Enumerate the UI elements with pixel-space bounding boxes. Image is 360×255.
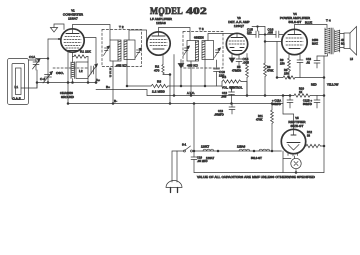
svg-text:33: 33: [307, 134, 311, 138]
tube V3 plate: [231, 37, 243, 39]
svg-text:MODEL: MODEL: [150, 6, 183, 16]
IF transformer T2 dashed shield: [102, 30, 142, 67]
svg-text:50MFD: 50MFD: [303, 102, 312, 106]
svg-text:GROUND: GROUND: [61, 95, 74, 99]
svg-text:C12: C12: [222, 91, 228, 95]
T3 primary winding: [187, 41, 199, 62]
tube V3 envelope: [226, 33, 247, 54]
wire V1 grid lead: [48, 38, 61, 40]
wire pilot left: [283, 158, 291, 160]
svg-text:.005: .005: [221, 95, 227, 99]
oscillator coil L2 box: [76, 62, 88, 79]
svg-text:.005: .005: [268, 31, 274, 35]
svg-text:S-1: S-1: [182, 143, 187, 147]
svg-text:.005: .005: [243, 61, 250, 65]
wire T2 secondary bottom to AVC: [126, 60, 128, 87]
capacitor C13 line filter: [231, 104, 233, 108]
svg-text:C.A.5: C.A.5: [13, 97, 21, 101]
svg-text:.02: .02: [306, 61, 310, 65]
tube V3 grid: [229, 40, 245, 42]
svg-text:R8: R8: [284, 68, 288, 72]
svg-text:12SQ7: 12SQ7: [234, 24, 244, 28]
wire T3 secondary top to V3: [208, 34, 237, 41]
capacitor C12: [229, 91, 235, 93]
svg-text:YELLOW: YELLOW: [327, 83, 339, 87]
wire heater feed vertical: [193, 104, 195, 152]
wire V4 screen pin: [299, 54, 301, 61]
T3 trimmer right: [216, 49, 220, 51]
wire to coupling cap: [264, 27, 266, 64]
T2 primary winding: [110, 40, 121, 61]
svg-text:470K: 470K: [267, 69, 274, 73]
tube V5 pin stubs: [287, 153, 289, 156]
svg-text:R12: R12: [307, 130, 313, 134]
tube V1 cathode: [66, 47, 79, 49]
tube V3 diode plates: [230, 47, 234, 49]
svg-text:470K: 470K: [256, 118, 263, 122]
capacitor C19: [193, 151, 195, 157]
tube V4 cathode: [289, 48, 300, 50]
tube V1 envelope: [61, 29, 84, 52]
svg-text:455 KC: 455 KC: [187, 64, 199, 68]
wire T3 primary bottom to B+: [190, 61, 192, 96]
AVC bus: [127, 85, 151, 87]
tube V2 cathode: [153, 48, 164, 50]
wire antenna bottom lead: [21, 70, 37, 88]
svg-text:B-: B-: [114, 99, 117, 103]
svg-text:C-2: C-2: [40, 77, 45, 81]
ground symbol mid: [180, 60, 182, 64]
T2 trimmer left: [105, 47, 109, 49]
tube V4 plate: [288, 34, 301, 36]
tube V3 cathode: [232, 50, 242, 52]
wire R2 bottom: [163, 74, 170, 104]
capacitor C17 cathode bypass: [297, 59, 303, 61]
right rail: [323, 56, 325, 173]
trimmer capacitor C2B osc: [90, 66, 92, 74]
wire T2 secondary top to V2 grid: [129, 30, 147, 43]
tube V5 plate: [291, 134, 296, 136]
wire T2 primary bottom RED lead: [112, 61, 114, 104]
svg-text:R9: R9: [280, 58, 284, 62]
svg-text:30MFD: 30MFD: [272, 102, 281, 106]
svg-text:455 KC: 455 KC: [116, 64, 128, 68]
svg-text:L1: L1: [15, 85, 19, 89]
capacitor C10: [216, 60, 218, 69]
svg-text:.05 MFD: .05 MFD: [197, 159, 208, 163]
svg-text:GREEN: GREEN: [194, 36, 204, 40]
junction dot: [47, 82, 49, 84]
svg-text:12SA7: 12SA7: [68, 17, 78, 21]
tube V1 plate: [66, 33, 79, 35]
junction dot: [36, 82, 38, 84]
svg-text:2.2 MEG: 2.2 MEG: [152, 90, 165, 94]
wire pot right: [241, 82, 247, 96]
wire ground drop: [67, 83, 69, 104]
loop antenna L1 inner winding: [16, 68, 22, 95]
svg-text:MAX: MAX: [312, 42, 318, 46]
capacitor C18 plate bypass: [316, 56, 318, 61]
svg-text:C11B +: C11B +: [303, 99, 313, 103]
wire pot left: [221, 82, 223, 87]
wire V2 cathode pin: [162, 55, 164, 65]
svg-text:470: 470: [154, 69, 160, 73]
wire V3 plate line: [248, 34, 257, 36]
wire V2 screen drop: [173, 55, 175, 96]
tube V5 cathode: [287, 142, 300, 144]
oscillator coil L2 hatch: [70, 62, 72, 79]
svg-text:+ C11A: + C11A: [272, 99, 281, 103]
svg-text:C13: C13: [218, 109, 224, 113]
wire pilot top: [294, 156, 296, 159]
svg-text:12BA6: 12BA6: [237, 145, 246, 149]
svg-text:R3: R3: [157, 80, 161, 84]
wire antenna section down: [36, 83, 38, 89]
svg-text:150: 150: [284, 72, 289, 76]
wire V5 top: [293, 114, 295, 129]
svg-text:50L6-GT: 50L6-GT: [289, 20, 302, 24]
tube V5 filament: [288, 145, 299, 151]
svg-text:A.V.C.: A.V.C.: [187, 91, 195, 95]
wire speaker top: [340, 33, 344, 35]
loop antenna L1 middle frame: [12, 64, 25, 100]
wire antenna top lead: [29, 60, 37, 62]
svg-text:12BA6: 12BA6: [156, 21, 166, 25]
svg-text:402: 402: [186, 6, 207, 16]
wire V4 cathode pin: [288, 54, 290, 59]
wire V1 bottom pins: [67, 52, 69, 83]
T2 secondary winding: [124, 40, 135, 60]
wire V2 plate top to T3: [159, 28, 191, 41]
pilot lamp: [291, 158, 301, 168]
svg-text:C1A: C1A: [29, 55, 36, 59]
IF transformer T3 dashed shield: [183, 32, 223, 69]
svg-text:R: R: [110, 67, 112, 71]
wire grid vertical: [47, 39, 49, 83]
svg-text:R5: R5: [237, 65, 241, 69]
power plug: [166, 181, 182, 188]
svg-text:1K: 1K: [299, 90, 303, 94]
wire T3 secondary bottom: [204, 60, 206, 87]
heater string wire: [194, 150, 282, 152]
svg-text:VALUE OF ALL CAPACITORS ARE MM: VALUE OF ALL CAPACITORS ARE MMF UNLESS O…: [197, 175, 316, 179]
svg-text:R6: R6: [267, 65, 271, 69]
tube V2 plate: [152, 35, 165, 37]
svg-text:T 4: T 4: [326, 19, 331, 23]
svg-text:E: E: [110, 71, 112, 75]
svg-text:R11: R11: [258, 114, 263, 118]
tube V5 envelope: [281, 129, 305, 153]
svg-text:A+: A+: [96, 78, 100, 82]
svg-text:150: 150: [280, 62, 285, 66]
B+ bus upper: [96, 90, 147, 96]
B- long bus: [68, 103, 283, 105]
T4 primary: [324, 28, 326, 54]
svg-text:D: D: [110, 74, 112, 78]
svg-text:2450: 2450: [312, 38, 319, 42]
wire top link: [252, 26, 265, 28]
svg-text:R1 22K: R1 22K: [80, 50, 92, 54]
T3 secondary winding: [202, 41, 214, 60]
tube V2 grids: [150, 39, 167, 41]
T2 trimmer right: [137, 49, 141, 51]
wire L2 bottom: [72, 79, 74, 83]
bottom rail: [194, 172, 324, 174]
wire AVC to R8: [276, 42, 278, 78]
tube V4 envelope: [282, 29, 307, 54]
svg-text:OSC.: OSC.: [56, 71, 64, 75]
tube V4 grids: [286, 37, 303, 39]
svg-text:L5: L5: [350, 57, 354, 61]
wire pilot bottom: [295, 169, 297, 173]
svg-text:220: 220: [247, 31, 252, 35]
wire speaker bottom: [340, 47, 344, 49]
svg-text:47MEG: 47MEG: [232, 69, 241, 73]
ganged tuning dashed link: [53, 67, 88, 69]
ground bus left: [37, 82, 96, 84]
tube V1 grids: [65, 36, 80, 38]
svg-text:R10: R10: [299, 87, 305, 91]
svg-text:C19: C19: [197, 156, 203, 160]
speaker: [344, 33, 350, 49]
wire V3 bottom ground: [231, 54, 233, 58]
capacitor C14: [238, 55, 240, 60]
svg-text:35Z5-GT: 35Z5-GT: [290, 124, 303, 128]
loop antenna L1 outer frame: [8, 59, 29, 105]
junction dot: [47, 58, 49, 60]
wire V4 grid: [265, 41, 282, 43]
wire C1A top to grid line: [36, 59, 48, 62]
svg-text:T 2: T 2: [119, 25, 124, 29]
wire V4 plate top: [295, 25, 328, 30]
wire V5 left loop: [282, 151, 284, 173]
T4 core: [331, 28, 333, 54]
B+ bus lower: [147, 95, 290, 97]
T4 secondary: [334, 30, 336, 52]
svg-text:BLUE: BLUE: [305, 21, 312, 25]
svg-text:VOL. CONTROL: VOL. CONTROL: [222, 86, 243, 90]
tube V2 envelope: [147, 32, 170, 55]
T3 trimmer left: [185, 47, 189, 49]
wire L2 top: [72, 57, 74, 63]
svg-text:50L6-GT: 50L6-GT: [251, 156, 262, 160]
wire V1 top to T2: [73, 25, 111, 41]
svg-text:R4: R4: [222, 75, 226, 79]
wire V1 pin right: [84, 38, 96, 83]
wire switch to plug: [172, 151, 184, 182]
svg-text:L2: L2: [79, 69, 83, 73]
svg-text:12SK7: 12SK7: [201, 145, 210, 149]
svg-text:T 3: T 3: [199, 27, 204, 31]
svg-text:.05MFD: .05MFD: [214, 113, 224, 117]
svg-text:RED: RED: [311, 83, 317, 87]
wire T4 primary bottom: [324, 54, 328, 56]
heater 12SQ7: [259, 149, 270, 151]
antenna arrow symbol: [54, 24, 64, 30]
svg-text:B+: B+: [106, 85, 110, 89]
svg-text:C18: C18: [306, 57, 312, 61]
